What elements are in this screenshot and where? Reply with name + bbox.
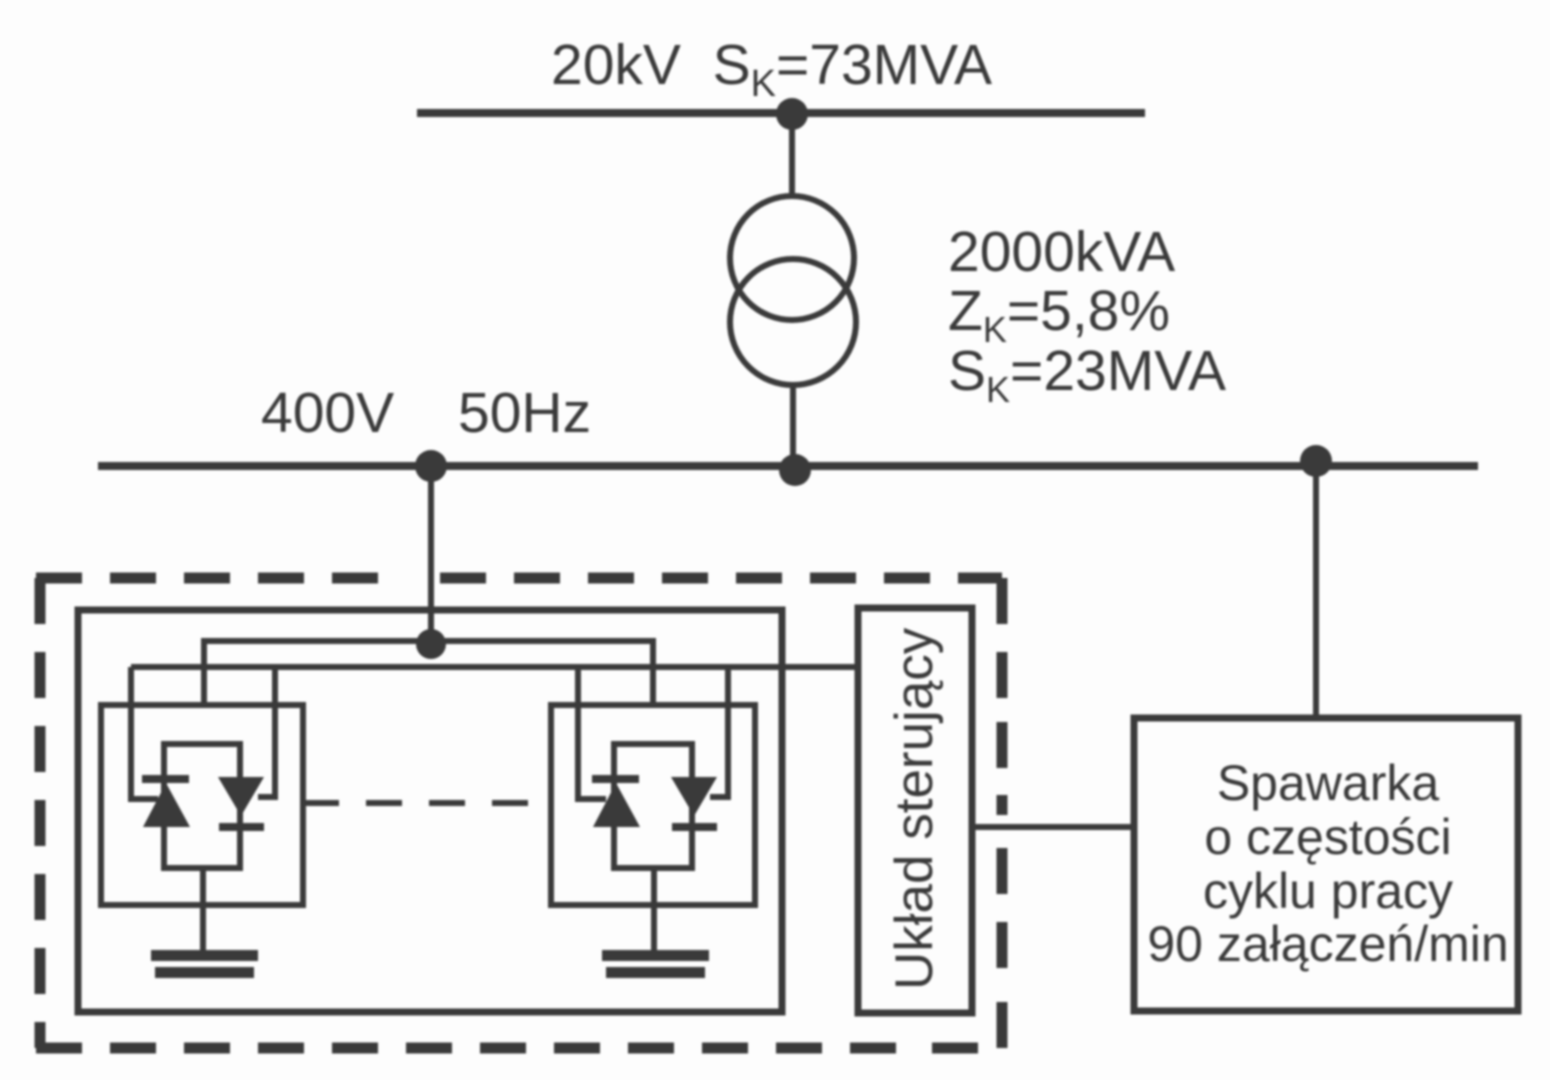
- spawarka box: [1134, 718, 1518, 1011]
- svg-text:Układ sterujący: Układ sterujący: [885, 627, 944, 990]
- control unit box: [858, 608, 972, 1013]
- transformer T1: [730, 196, 854, 320]
- svg-text:o częstości: o częstości: [1204, 809, 1451, 865]
- gate wire G4: [710, 667, 728, 797]
- wire transformer to 400V bus: [790, 384, 796, 466]
- thyristor module W1 box: [101, 705, 303, 905]
- inter-module dashed link: [303, 800, 551, 806]
- dashed enclosure: [36, 578, 1002, 1048]
- thyristor unit box: [78, 610, 782, 1012]
- node D power split: [416, 629, 446, 659]
- thyristor module W2 box: [551, 705, 755, 905]
- control output wire: [972, 824, 1134, 830]
- node C spawarka feed: [1300, 445, 1332, 477]
- gate bus H2: [131, 664, 858, 670]
- W2 loop: [614, 744, 692, 868]
- spawarka label: [1147, 755, 1508, 972]
- node on 20kV bus: [776, 98, 808, 130]
- svg-text:50Hz: 50Hz: [458, 381, 591, 445]
- svg-text:2000kVA: 2000kVA: [948, 220, 1175, 284]
- thyristor V3 up: [592, 775, 640, 827]
- gate wire G1: [131, 667, 158, 799]
- thyristor V1 up: [142, 775, 190, 827]
- svg-text:Spawarka: Spawarka: [1217, 755, 1440, 811]
- svg-text:cyklu pracy: cyklu pracy: [1203, 863, 1453, 919]
- ground W2: [602, 950, 709, 978]
- 20kV bus: [417, 109, 1145, 117]
- svg-text:400V: 400V: [261, 381, 394, 445]
- W1 ground stem: [200, 868, 206, 951]
- svg-text:20kV SK=73MVA: 20kV SK=73MVA: [551, 33, 992, 105]
- wire bus to spawarka: [1313, 461, 1319, 721]
- node B transformer to bus: [779, 454, 811, 486]
- svg-text:90 załączeń/min: 90 załączeń/min: [1147, 916, 1508, 972]
- W2 ground stem: [651, 868, 657, 951]
- wire bus to thyristor unit: [428, 466, 434, 648]
- wire node to transformer: [789, 114, 795, 198]
- gate wire G2: [258, 667, 275, 797]
- 400V bus: [98, 462, 1478, 470]
- thyristor V2 down: [218, 777, 264, 831]
- node A on 400V bus: [415, 450, 447, 482]
- W1 loop: [164, 744, 240, 868]
- power wire H1: [204, 641, 653, 702]
- ground W1: [151, 950, 258, 978]
- thyristor V4 down: [671, 777, 717, 831]
- gate wire G3: [578, 667, 606, 799]
